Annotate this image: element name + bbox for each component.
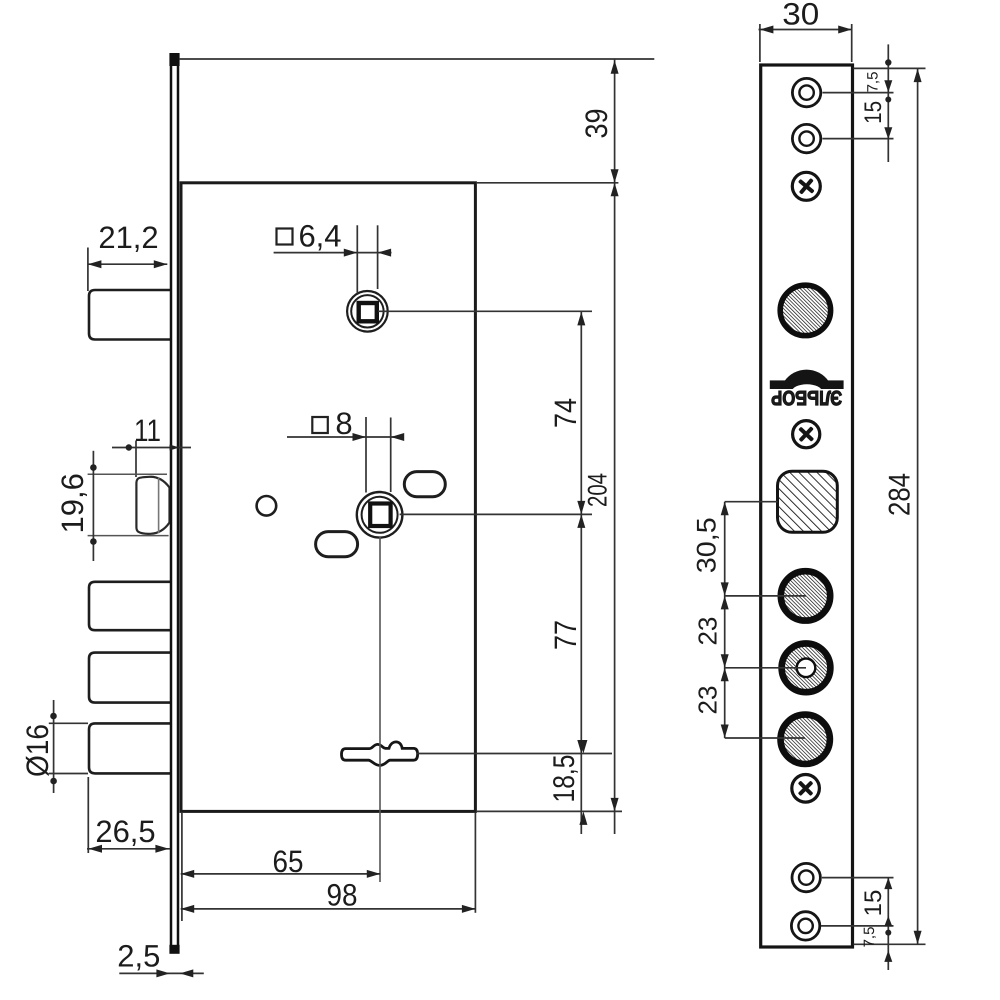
screw hole bottom 2 — [791, 912, 819, 940]
dimension 19,6 — [88, 474, 169, 535]
svg-text:23: 23 — [692, 617, 722, 646]
oval slot lower left — [316, 532, 358, 557]
deadbolt stub 2 — [89, 653, 171, 703]
dimension 284 — [854, 68, 926, 944]
svg-text:7,5: 7,5 — [865, 72, 882, 93]
svg-text:39: 39 — [579, 109, 614, 139]
large hatched circle (top bolt hole) — [780, 285, 830, 335]
svg-text:11: 11 — [134, 413, 161, 448]
svg-text:8: 8 — [335, 406, 352, 441]
dimension 30 — [759, 24, 853, 62]
faceplate top cap — [169, 53, 179, 66]
svg-text:74: 74 — [548, 398, 583, 428]
svg-text:15: 15 — [860, 101, 887, 124]
hatched circle 1 (30.5) — [781, 571, 830, 620]
latch bolt — [136, 477, 169, 534]
svg-text:26,5: 26,5 — [95, 814, 155, 849]
cylinder hole rounded square hatched — [778, 471, 838, 532]
svg-text:7,5: 7,5 — [861, 927, 878, 948]
dimension 2,5 — [119, 972, 204, 974]
dimension 65 — [181, 812, 183, 921]
screw hole bottom 1 — [792, 863, 820, 891]
hatched circle 3 — [781, 715, 830, 764]
faceplate bottom cap — [169, 945, 179, 954]
dimension 74 and 77 chain line — [580, 312, 582, 834]
follower 8 inner circle — [362, 497, 398, 533]
latch inner edge line — [158, 478, 160, 534]
dimension square 6,4 — [274, 225, 392, 293]
dimension 39 and 204 chain line — [614, 59, 616, 834]
keyhole key bit slot — [342, 742, 418, 766]
screw hole top 2 — [792, 124, 820, 152]
faceplate edge view right line — [177, 54, 180, 953]
dimension chain 30,5 / 23 / 23 — [725, 502, 806, 738]
hatched circle 2 with pin hole — [782, 643, 831, 692]
svg-text:2,5: 2,5 — [117, 939, 160, 974]
svg-text:19,6: 19,6 — [55, 473, 90, 533]
dimension 26,5 — [87, 777, 170, 853]
dimension 15 and 7,5 bottom — [821, 878, 894, 970]
lock body outline — [181, 183, 475, 812]
deadbolt stub top (21.2 view) — [89, 290, 171, 340]
svg-text:18,5: 18,5 — [548, 755, 581, 803]
logo ELBOR (rotated 180) — [770, 370, 844, 409]
leader line follower 8 center — [400, 513, 592, 515]
leader line keyhole center — [417, 753, 613, 755]
svg-text:21,2: 21,2 — [98, 220, 158, 255]
svg-text:15: 15 — [860, 890, 887, 917]
follower 6.4 inner circle — [351, 295, 383, 327]
top extension line — [179, 58, 654, 60]
svg-text:65: 65 — [273, 844, 304, 879]
centerline through follower 8 and keyhole — [379, 537, 381, 882]
phillips screw top — [792, 172, 820, 200]
dimension 21,2 — [88, 248, 167, 292]
dimension diameter 16 — [49, 700, 88, 793]
leader line body top right — [477, 182, 618, 184]
svg-text:Ø16: Ø16 — [20, 724, 55, 777]
faceplate front view outline — [761, 65, 853, 947]
svg-text:77: 77 — [548, 620, 583, 650]
svg-text:284: 284 — [884, 473, 917, 516]
deadbolt stub 3 — [89, 723, 171, 773]
svg-text:98: 98 — [327, 878, 358, 913]
small screw hole in body — [257, 496, 277, 516]
dimension 98 — [474, 813, 476, 913]
svg-text:23: 23 — [692, 686, 722, 715]
follower 6.4 outer circle — [347, 291, 388, 332]
svg-text:ЭЛЬБОР: ЭЛЬБОР — [771, 386, 842, 409]
svg-text:6,4: 6,4 — [298, 219, 341, 254]
svg-text:30,5: 30,5 — [692, 517, 722, 573]
deadbolt stub 1 — [89, 582, 171, 630]
follower 8 outer circle — [357, 492, 403, 538]
svg-text:204: 204 — [583, 473, 613, 507]
leader line body bottom right — [477, 810, 622, 812]
svg-text:30: 30 — [782, 0, 819, 32]
screw hole top 1 — [792, 78, 820, 106]
dimension 11 — [112, 441, 191, 478]
dimension square 8 — [287, 417, 400, 493]
faceplate edge view left line — [170, 54, 173, 953]
phillips screw middle — [793, 421, 820, 448]
follower 6.4 square hole — [359, 303, 377, 321]
leader line follower 6.4 center — [378, 310, 592, 312]
dimension 18,5 arrows — [579, 740, 587, 825]
oval slot upper right — [404, 472, 445, 497]
dimension 7,5 and 15 top — [823, 44, 894, 162]
phillips screw bottom — [792, 775, 820, 803]
follower 8 square hole — [370, 504, 390, 527]
